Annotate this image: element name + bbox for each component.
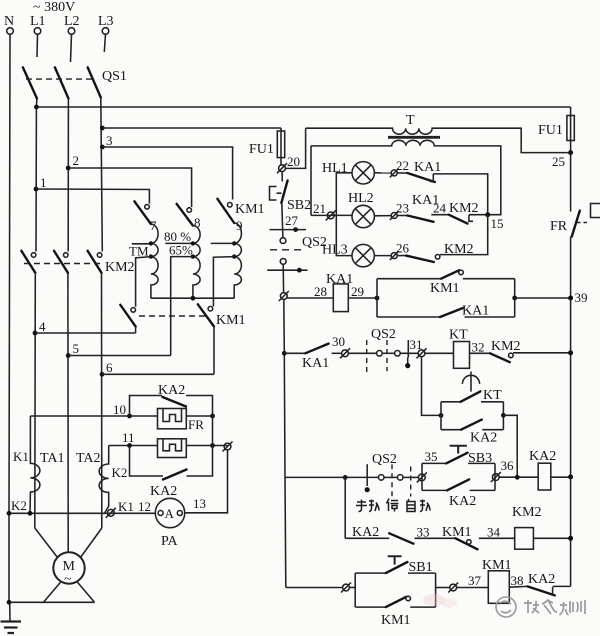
transformer TM winding 2 [193,226,200,299]
wire L1 vertical [35,107,37,252]
node KT-output row dot [515,475,520,480]
contact KA2 33 blade [389,533,413,543]
contact 8 fixed circle [187,208,192,213]
wire KM2 row lead [345,537,389,539]
wire L2 vertical [67,98,69,251]
node 5 dot [66,353,71,358]
switch QS2 row dash2 [410,467,412,497]
label shoudong [356,500,379,512]
svg-text:L1: L1 [30,14,46,29]
svg-text:21: 21 [313,201,326,216]
contact KA2 sb3box blade [447,479,469,490]
svg-text:KM2: KM2 [449,201,479,216]
wire SB3 box left vertical [421,463,423,490]
contact KM1 33 blade [456,538,478,549]
coil KT box [454,342,470,369]
svg-text:3: 3 [106,133,113,148]
svg-text:35: 35 [425,449,438,464]
wire bus 25 to FR [570,153,572,212]
terminal N circle [7,28,14,35]
svg-text:KA2: KA2 [529,449,556,464]
svg-text:~ 380V: ~ 380V [33,0,75,15]
node K2-N dot [7,511,12,516]
wire L1 lead [36,34,39,57]
wire motor feed L1 slant [35,528,58,558]
contact KM2 row30 circle [509,353,514,358]
svg-text:QS2: QS2 [371,327,396,342]
contact 7 blade [134,201,151,224]
wire row30 lead [284,352,305,354]
wire T secondary left drop [310,146,312,216]
svg-text:15: 15 [491,216,504,231]
switch QS1 pole3 blade [88,67,101,97]
pushbutton SB3 cap [450,446,467,454]
svg-text:SB1: SB1 [409,560,433,575]
svg-text:L2: L2 [64,14,80,29]
svg-text:KA1: KA1 [302,356,329,371]
terminal slash 30 [340,348,350,358]
node K2 right dot [210,443,215,448]
svg-text:KM1: KM1 [430,281,460,296]
svg-text:SB3: SB3 [468,451,492,466]
node winding2 bottom dot [191,296,196,301]
svg-text:10: 10 [113,402,126,417]
motor skirt right [78,582,95,602]
svg-text:24: 24 [433,201,447,216]
wire W1 80% tap stub [132,243,149,245]
node TA1-K2 dot [28,511,33,516]
wire row30 lead5 [400,352,418,354]
svg-text:27: 27 [285,213,299,228]
contact KM2 row30 blade [490,353,510,362]
node KA2row bus dot [568,474,573,479]
tap dot W1 65% [149,254,153,258]
wire W2 65% tap down to node5 row [171,257,193,356]
terminal L2 circle [68,28,75,35]
svg-text:TA1: TA1 [40,451,65,466]
svg-text:N: N [4,14,14,29]
current transformer TA2 secondary [99,446,109,514]
wire coil KA2 to bus [551,476,571,478]
wire L1 bus top [36,98,570,107]
switch QS2 row dash1 [391,464,393,496]
wire 37 lead [457,587,489,589]
svg-text:TA2: TA2 [76,451,101,466]
tap dot W2 65% [191,254,195,258]
wire KM2row feed drop [344,477,346,538]
wire node2 feed to contact 8 [68,168,191,207]
terminal slash 26 [390,251,399,260]
wire SB1 branch right [408,572,436,574]
transformer T core bar [388,136,440,139]
contact KM1 left blade [120,305,135,327]
coil KA1 box [333,284,348,312]
terminal slash node 13 riser [223,442,233,452]
wire KM1 branch right [463,278,515,280]
wire box to node39 [515,297,571,299]
transformer T secondary [311,140,501,214]
pushbutton SB1 blade [386,562,408,573]
svg-text:11: 11 [122,430,135,445]
watermark logo [496,597,516,617]
contact KM1 right blade [198,304,214,326]
contact KM1 sb1box blade [386,597,406,607]
wire KM1 left lower lead [135,327,137,334]
switch QS2 row circle2 [397,475,403,481]
coil KM1 box [488,571,509,604]
svg-text:KA2: KA2 [150,484,177,499]
transformer TM winding 1 [151,224,158,298]
contactor KM2 linkage dashes [24,263,100,265]
pushbutton SB1 cap [388,556,402,564]
wire HL1 row right [433,174,487,215]
switch QS2 linkage dashes [270,249,305,251]
svg-text:1: 1 [40,175,47,190]
wire KM1 branch right sb1 [410,606,435,608]
wire KM2 row lead3 [479,537,515,539]
wire HL3 branch riser [336,215,352,255]
terminal slash K1 [106,508,116,518]
wire W3 65% tap down to right KM1 contact [213,257,234,307]
wire L2 lead [71,34,72,62]
svg-text:6: 6 [106,360,113,375]
wire KA1 branch left [377,316,440,318]
ammeter PA circle [155,498,184,527]
wire row30 lead4 [382,352,394,354]
wire K2 row right [186,445,227,447]
fuse FU1 left wire [280,128,282,165]
wire row30 lead3 [348,352,376,354]
wire KA2 lower branch [130,446,164,477]
contactor KM2 pole3 circle [97,253,102,258]
node 25 dot [568,150,573,155]
ground bar 3 [8,632,15,634]
switch QS2 lower circle [280,259,286,265]
wire L3 lower vertical [101,273,103,528]
wire KM2 row lead2 [415,537,456,539]
wire node11 row [109,445,158,447]
wire KA2 lower branch right [187,446,213,477]
wire 36 to coil [499,476,538,478]
node QS2row dot [343,475,348,480]
wire SB1 lead2 [349,587,355,589]
motor skirt left [44,582,61,602]
svg-text:PA: PA [161,534,179,549]
wire FR to node39 [570,237,572,587]
wire FR row right [186,415,212,417]
node 11 dot [127,443,132,448]
ammeter left terminal [158,511,163,516]
svg-text:38: 38 [511,573,524,588]
pushbutton SB2 blade [281,181,287,203]
watermark text jichengpeixun [524,600,585,615]
wire KA2 branch right [482,429,503,431]
wire HL2 row right [469,214,488,216]
wire node10 row [30,415,129,417]
wire QS2 row lead [285,476,378,478]
wire column 28 down [284,299,286,587]
terminal slash 31 [417,348,427,358]
label ting [387,499,399,512]
svg-text:37: 37 [468,573,482,588]
node 4 dot [33,331,38,336]
terminal slash 23 [390,211,399,220]
svg-text:QS2: QS2 [302,235,327,250]
node L3 to FU1 dot [100,126,105,131]
wire L3 to FU1 bus [102,127,281,129]
contact 9 fixed circle [228,203,233,208]
wire W3 80% tap stub [211,242,233,244]
wire HL3 right lead [374,255,391,257]
switch QS1 linkage dashes [26,78,95,80]
svg-text:FU1: FU1 [538,123,563,138]
svg-text:KM1: KM1 [216,313,246,328]
svg-text:KA1: KA1 [414,160,441,175]
terminal L3 circle [102,28,109,35]
wire L2 lower vertical [67,273,69,553]
contact FR NC blade [572,211,580,237]
node 1 dot [34,187,39,192]
wire QS2 to 28 [282,264,284,292]
node box left dot [375,296,380,301]
svg-text:L3: L3 [98,14,114,29]
wire 31 drop to KT box [422,357,442,416]
pushbutton SB3 blade [446,453,467,464]
svg-text:KM1: KM1 [381,613,411,628]
wire row30 lead7 [470,352,491,354]
wire KA1 branch right [465,316,515,318]
wire W2 80% tap stub [165,242,191,244]
contact KA1 row30 blade [305,344,328,354]
motor M circle [53,552,84,583]
switch QS2 row30 tick [407,340,409,358]
svg-text:FR: FR [188,417,204,432]
svg-text:20: 20 [287,154,300,169]
wire KA1 coil row lead [287,297,333,299]
wire L1 lower vertical [34,273,37,528]
wire KTbox output drop [503,415,517,477]
ground stub [9,602,11,621]
svg-text:34: 34 [487,525,501,540]
heater FR element box [158,409,187,429]
wire K2 ammeter row [9,512,155,514]
coil KM2 box [515,528,534,550]
wire HL1 right lead [374,172,391,174]
contact KA1 23 blade [407,216,433,222]
svg-text:KA2: KA2 [449,494,476,509]
node row30 bus dot [568,350,573,355]
wire node3 feed to contact 9 [102,147,232,200]
contactor KM2 pole2 circle [64,253,69,258]
contact KM1 sb1box circle [406,596,411,601]
svg-text:T: T [406,113,415,128]
wire HL2 right lead [374,215,391,217]
node 2 dot [66,166,71,171]
wire KM1 right lower lead [213,327,215,375]
wire SB1 box right vertical [435,573,437,607]
ammeter right terminal [177,511,182,516]
switch QS2 row30 hang dot [405,358,410,369]
lamp HL3 [352,244,374,266]
QS2 position crossbar [267,269,307,271]
wire 38 to bus [553,585,571,587]
switch QS2 upper circle [280,238,286,244]
wire QS2 row lead3 [403,476,418,478]
svg-text:KA2: KA2 [352,525,379,540]
svg-text:25: 25 [552,154,565,169]
terminal slash node 20 [277,163,287,173]
svg-text:29: 29 [351,284,364,299]
svg-text:26: 26 [396,241,410,256]
pushbutton SB2 actuator bracket [270,187,282,201]
wire 22 lead [397,172,407,174]
contact KM1 right fixed circle [208,306,213,311]
current transformer TA1 secondary [30,416,40,513]
fuse FU1 left body [277,131,284,158]
terminal slash node 28 [279,291,289,301]
wire KA2 branch left [441,429,461,431]
contact KM1 selfhold blade [441,270,459,279]
svg-text:13: 13 [193,496,206,511]
svg-text:2: 2 [73,153,80,168]
svg-text:K2: K2 [112,465,128,480]
coil KA2 box [538,463,551,490]
contact KA1 22 terminal bar [430,174,434,182]
svg-text:KA1: KA1 [326,272,353,287]
contact KM2 26 circle [435,254,440,259]
tap dot W2 80% [191,241,195,245]
wire row30 to bus [513,352,571,354]
wire N vertical [9,34,10,602]
wire SB3 branch right [468,462,495,464]
svg-text:23: 23 [396,201,409,216]
contact KM1 left fixed circle [131,308,136,313]
svg-text:A: A [165,506,175,521]
wire motor feed L3 slant [81,528,102,558]
svg-text:QS1: QS1 [102,69,127,84]
svg-text:32: 32 [472,340,485,355]
terminal slash 36 [491,472,501,482]
label zidong [407,499,430,512]
contactor KM2 pole1 circle [31,253,36,258]
contact KM1 33 circle [467,540,471,544]
node earth dot [7,600,12,605]
wire FR-K2 right vertical [212,416,214,446]
wire SB3 box right vertical [494,463,496,490]
watermark pink smudge [423,594,445,606]
wire SB1 branch left [355,572,386,574]
lamp HL2 [352,205,374,227]
wire KA2 bypass top right [186,396,213,417]
svg-text:KM2: KM2 [491,339,521,354]
wire SB2 to 27 [282,203,283,238]
wire node1 feed to contact 7 [36,189,149,204]
wire motor earth base [9,601,95,603]
contact KM1 selfhold circle [459,270,464,275]
transformer TM winding 3 [234,223,241,298]
svg-text:K1: K1 [13,449,29,464]
svg-text:5: 5 [73,341,80,356]
contactor KM2 pole2 blade [54,251,68,273]
svg-text:KM1: KM1 [235,202,265,217]
svg-text:33: 33 [417,525,430,540]
fuse FU1 right body [567,116,574,141]
wire QS2 row lead2 [384,476,397,478]
svg-text:FU1: FU1 [249,142,274,157]
svg-text:~: ~ [64,572,72,587]
switch QS2 row30 dash2 [386,340,388,371]
svg-text:22: 22 [396,158,409,173]
pushbutton SB2 lead [281,172,283,182]
terminal slash 22 [390,169,399,178]
contact KT delay blade [461,391,481,401]
wire SB1 row lead [286,587,343,589]
transformer T primary [306,128,571,152]
wire HL1 branch riser [336,173,352,216]
wire FR row left [130,415,158,417]
node 10 dot [127,414,132,419]
QS2 position dot [297,268,302,273]
wire KM1 branch left [377,278,441,280]
contact KA2 lower blade [163,470,187,480]
svg-text:KT: KT [483,388,502,403]
contactor KM1 linkage dashes [139,315,206,317]
contact KA2 upper blade [163,397,187,407]
fuse FU1 right wire [570,107,572,153]
heater K2 inner meander [163,439,182,451]
wire KA2 branch left sb3 [422,489,447,491]
terminal slash node 21 [326,210,336,220]
switch QS2 row hang dot [365,487,370,492]
node KTbox left dot [439,413,444,418]
wire KA2 bypass top branch [130,396,163,417]
switch QS2 row circle1 [378,475,384,481]
wire row30 lead2 [332,352,342,354]
svg-text:QS2: QS2 [372,452,397,467]
wire SB1 box left vertical [354,573,356,607]
svg-text:KM2: KM2 [105,260,135,275]
wire KT branch right [481,401,503,403]
wire 24 lead [431,214,448,216]
heater K2 element box [158,439,187,458]
wire KTbox left vertical [440,402,442,430]
FR linkage dash [577,222,590,224]
contact KT delay arc [462,372,479,392]
contact KA2 38 hook [552,587,554,595]
tap dot W1 80% [149,241,153,245]
wire KM1 branch left sb1 [355,606,386,608]
contactor KM2 pole3 blade [88,251,102,273]
svg-text:36: 36 [501,458,515,473]
switch QS2 row30 dash1 [366,340,368,373]
node FR right dot [210,414,215,419]
svg-text:KA2: KA2 [470,431,497,446]
wire KA2 branch right sb3 [470,489,495,491]
node 27 crossbar [270,229,307,231]
node box right dot [512,296,517,301]
wire KTbox right vertical [502,402,504,430]
svg-text:KM2: KM2 [512,505,542,520]
wire HL3 row right [440,215,488,255]
svg-text:KM1: KM1 [482,558,512,573]
node 15 dot [485,212,490,217]
svg-text:SB2: SB2 [287,198,311,213]
node 3 dot [100,145,105,150]
svg-text:HL2: HL2 [348,191,374,206]
svg-text:4: 4 [39,319,46,334]
wire node20 to T primary [285,128,305,168]
wire KT branch left [441,401,461,403]
